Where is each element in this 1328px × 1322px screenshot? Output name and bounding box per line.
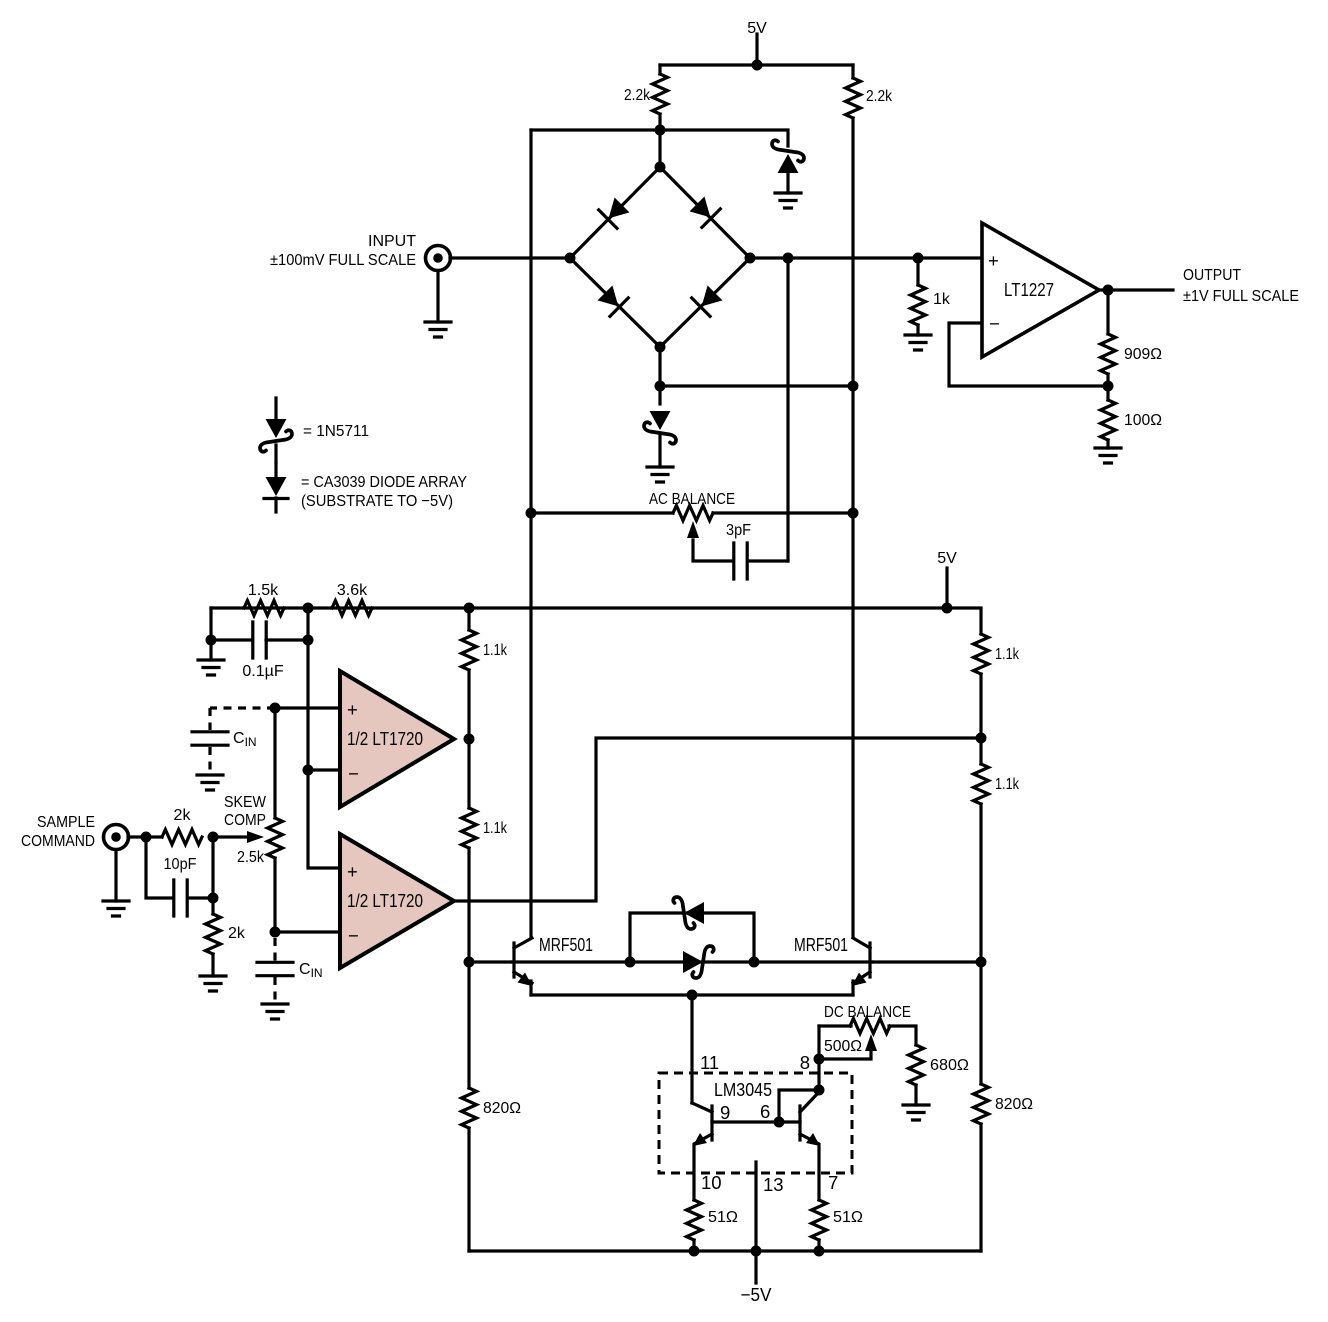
node base junction xyxy=(774,1117,785,1128)
svg-text:OUTPUT: OUTPUT xyxy=(1183,267,1241,284)
wire terminal to 2k xyxy=(128,835,162,838)
node SAMPLE COMMAND terminal xyxy=(21,814,129,901)
svg-text:1.1k: 1.1k xyxy=(995,646,1020,663)
svg-text:2k: 2k xyxy=(228,925,246,942)
resistor 1.1k upper-right xyxy=(974,634,1020,674)
resistor 2.2k left xyxy=(624,65,668,130)
wire dashed CIN1 to ground xyxy=(208,747,211,774)
svg-text:1.1k: 1.1k xyxy=(483,820,508,837)
svg-text:LM3045: LM3045 xyxy=(714,1079,772,1100)
svg-text:3pF: 3pF xyxy=(726,522,751,539)
node pin 8 junction xyxy=(814,1054,825,1065)
node comp1 inverting junction xyxy=(303,765,314,776)
svg-text:500Ω: 500Ω xyxy=(824,1038,862,1055)
wire pin 11 drop xyxy=(690,995,693,1103)
resistor 820 ohm right xyxy=(974,1084,1034,1124)
node skew comp wiper junction xyxy=(208,832,219,843)
wire op-amp output xyxy=(1099,288,1173,291)
svg-text:1k: 1k xyxy=(933,291,951,308)
svg-text:= CA3039 DIODE ARRAY: = CA3039 DIODE ARRAY xyxy=(301,474,467,491)
resistor 680 ohm xyxy=(909,1045,970,1105)
svg-text:10: 10 xyxy=(701,1172,722,1193)
ground 2k shunt xyxy=(200,976,226,991)
legend diode 1N5711 symbol xyxy=(260,398,369,462)
ground input terminal xyxy=(425,322,451,337)
svg-text:(SUBSTRATE TO −5V): (SUBSTRATE TO −5V) xyxy=(301,493,453,510)
node bridge top vertex xyxy=(655,162,666,173)
wire bottom -5V rail xyxy=(469,1249,981,1252)
svg-text:10pF: 10pF xyxy=(164,856,197,873)
ground CIN1 xyxy=(197,775,223,790)
node op-amp output xyxy=(1103,285,1114,296)
diode D1 1N5711 clamp top (cathode up) xyxy=(772,140,804,193)
node 0.1uF right junction xyxy=(303,635,314,646)
svg-text:3.6k: 3.6k xyxy=(337,582,368,599)
wire center base link xyxy=(512,960,872,963)
node right line junction y386 xyxy=(848,381,859,392)
diode bridge lower-right (CA3039, right to bottom) xyxy=(692,284,725,317)
node diode pair left junction xyxy=(625,957,636,968)
wire bridge bottom stem xyxy=(658,347,661,404)
node 51 ohm right junction xyxy=(814,1246,825,1257)
diode bridge upper-left (CA3039, top to left) xyxy=(599,196,632,229)
wire diode connection pin6 to collector xyxy=(779,1090,819,1122)
svg-text:MRF501: MRF501 xyxy=(794,934,848,955)
resistor 1k xyxy=(911,253,951,336)
wire base link xyxy=(712,1120,800,1123)
capacitor CIN1 xyxy=(192,730,257,749)
wire junction to bridge top xyxy=(658,130,661,167)
resistor 820 ohm left xyxy=(462,1088,522,1128)
resistor 909 ohm xyxy=(1101,290,1163,386)
svg-text:+: + xyxy=(347,699,358,720)
wire dashed CIN2 to ground xyxy=(273,977,276,1003)
wire rail left drop xyxy=(209,608,212,640)
potentiometer DC BALANCE 500 ohm xyxy=(819,1004,916,1059)
wire comp1 inverting input xyxy=(308,768,340,771)
svg-text:0.1µF: 0.1µF xyxy=(242,663,283,680)
svg-text:+: + xyxy=(988,250,999,271)
wire right base xyxy=(872,960,981,963)
diode bridge upper-right (CA3039, top to right) xyxy=(688,195,721,228)
wire skew comp vertical xyxy=(273,708,276,932)
wire emitter bus xyxy=(531,993,853,996)
wire diode on base link xyxy=(630,960,754,963)
svg-text:−: − xyxy=(348,763,359,784)
svg-text:MRF501: MRF501 xyxy=(539,934,593,955)
svg-text:680Ω: 680Ω xyxy=(930,1057,969,1074)
resistor 1.1k lower-left xyxy=(462,808,508,848)
svg-text:9: 9 xyxy=(720,1102,730,1123)
wire left vertical line to MRF501 collector xyxy=(529,130,532,937)
wire input terminal ground stem xyxy=(436,271,439,322)
wire dashed to CIN2 xyxy=(273,938,276,961)
wire input to bridge left vertex xyxy=(450,256,570,259)
wire bridge bottom to right line xyxy=(660,384,853,387)
node 3pF tap on output line xyxy=(783,253,794,264)
legend diode CA3039 symbol xyxy=(264,464,467,512)
node -5V junction xyxy=(751,1246,762,1257)
svg-text:2.5k: 2.5k xyxy=(237,849,265,866)
svg-text:2k: 2k xyxy=(174,807,192,824)
wiper DC balance xyxy=(819,1051,871,1059)
diode D2 1N5711 clamp below bridge (cathode down) xyxy=(644,411,676,467)
node 0.1uF left junction xyxy=(206,635,217,646)
node bridge top feed junction xyxy=(531,125,788,168)
svg-text:2.2k: 2.2k xyxy=(866,88,893,105)
node 10pF left junction xyxy=(141,832,152,843)
svg-text:51Ω: 51Ω xyxy=(708,1209,738,1226)
op-amp U2b 1/2 LT1720 xyxy=(340,834,454,968)
svg-text:1.1k: 1.1k xyxy=(995,776,1020,793)
node AC balance right junction xyxy=(848,508,859,519)
svg-text:±100mV FULL SCALE: ±100mV FULL SCALE xyxy=(270,252,416,269)
wire 3pF branch vertical xyxy=(786,258,789,561)
svg-text:−: − xyxy=(989,313,1000,334)
transistor Q1 MRF501 (PNP left) xyxy=(514,934,593,995)
node comp2 output junction right xyxy=(976,733,987,744)
resistor 1.5k xyxy=(244,582,284,616)
resistor 1.1k lower-right xyxy=(974,764,1020,804)
node OUTPUT label xyxy=(1183,267,1299,305)
transistor Q2 MRF501 (PNP right) xyxy=(794,934,870,995)
svg-text:1.5k: 1.5k xyxy=(248,582,279,599)
wire pin 13 substrate xyxy=(754,1162,757,1283)
svg-text:909Ω: 909Ω xyxy=(1124,346,1162,363)
wire op-amp inverting feedback xyxy=(949,323,1108,386)
node diode pair right junction xyxy=(749,957,760,968)
wire junction right to clamp diode xyxy=(660,130,788,146)
node bridge right vertex xyxy=(745,253,756,264)
wire junction left to hold line xyxy=(531,128,660,131)
wire comp1 noninverting input xyxy=(275,706,340,709)
wire bridge arm top-right xyxy=(660,167,750,258)
wire bridge output to op-amp xyxy=(750,256,981,259)
node 5V mid junction xyxy=(942,603,953,614)
op-amp U1 LT1227 xyxy=(982,223,1099,357)
node INPUT terminal xyxy=(270,233,451,322)
resistor 3.6k xyxy=(332,582,372,616)
wire comparator feedback vertical xyxy=(308,608,340,868)
svg-text:INPUT: INPUT xyxy=(368,233,416,250)
svg-text:6: 6 xyxy=(760,1101,770,1122)
node 51 ohm left junction xyxy=(689,1246,700,1257)
node bridge bottom junction xyxy=(655,381,666,392)
svg-text:51Ω: 51Ω xyxy=(833,1209,863,1226)
resistor 2k series xyxy=(162,807,202,845)
svg-text:1.1k: 1.1k xyxy=(483,642,508,659)
ground 1k xyxy=(905,335,931,350)
wire bridge arm top-left xyxy=(570,167,660,258)
diode bridge lower-left (CA3039, left to bottom) xyxy=(596,284,629,317)
svg-text:2.2k: 2.2k xyxy=(624,87,651,104)
resistor 1.1k upper-left xyxy=(462,630,508,670)
wire bridge arm bottom-right xyxy=(660,258,750,347)
svg-text:AC BALANCE: AC BALANCE xyxy=(649,491,735,508)
resistor 2k shunt xyxy=(206,914,246,976)
ground sample terminal xyxy=(103,901,129,916)
svg-text:5V: 5V xyxy=(937,550,957,567)
wire pin 8 net xyxy=(817,1026,820,1090)
node 5V mid supply xyxy=(937,550,957,608)
svg-text:11: 11 xyxy=(700,1052,719,1073)
svg-text:1/2 LT1720: 1/2 LT1720 xyxy=(347,890,423,911)
resistor 2.2k right xyxy=(846,65,893,937)
node emitter bus center xyxy=(687,990,698,1001)
svg-text:−5V: −5V xyxy=(741,1284,773,1305)
ground 680 ohm xyxy=(903,1105,929,1120)
svg-text:−: − xyxy=(348,925,359,946)
wire comp2 inverting input xyxy=(275,930,340,933)
node left base junction xyxy=(464,957,475,968)
node collector junction xyxy=(814,1085,825,1096)
node AC balance left junction xyxy=(526,508,537,519)
resistor 51 ohm right xyxy=(812,1200,864,1251)
ground 0.1uF xyxy=(198,640,224,675)
svg-text:COMP: COMP xyxy=(224,812,266,829)
node bridge bottom vertex xyxy=(655,342,666,353)
node right base junction xyxy=(976,957,987,968)
resistor 51 ohm left xyxy=(687,1200,739,1251)
junction top rail / 5V xyxy=(752,60,763,71)
node comp2 - junction xyxy=(270,927,281,938)
svg-text:LT1227: LT1227 xyxy=(1004,279,1054,300)
potentiometer AC BALANCE xyxy=(531,491,853,561)
node comp1 + junction xyxy=(270,703,281,714)
node feedback junction xyxy=(1103,381,1114,392)
node rail/3.6k junction xyxy=(303,603,314,614)
wire top rail xyxy=(660,63,853,66)
capacitor 0.1uF xyxy=(211,622,308,680)
ground CIN2 xyxy=(262,1004,288,1019)
svg-text:SAMPLE: SAMPLE xyxy=(37,814,95,831)
svg-text:+: + xyxy=(347,861,358,882)
svg-text:820Ω: 820Ω xyxy=(995,1096,1033,1113)
wire 1.1k chain vertical left xyxy=(467,608,470,1251)
node 10pF right junction xyxy=(208,893,219,904)
node rail/1.1k junction xyxy=(464,603,475,614)
wire comp2 output routing xyxy=(454,738,981,901)
svg-text:820Ω: 820Ω xyxy=(483,1100,521,1117)
capacitor CIN2 xyxy=(257,961,323,980)
wire bridge arm bottom-left xyxy=(570,258,660,347)
wire 10pF branch xyxy=(146,837,213,914)
svg-text:= 1N5711: = 1N5711 xyxy=(303,423,369,440)
wire dashed to CIN1 xyxy=(210,708,275,730)
diode D4 1N5711 (lower, pointing right) xyxy=(683,946,714,978)
svg-text:7: 7 xyxy=(828,1172,838,1193)
transistor Q3 LM3045 left (NPN) xyxy=(692,1103,712,1200)
node bridge left vertex xyxy=(565,253,576,264)
resistor 100 ohm xyxy=(1101,386,1163,448)
wire 5V stem xyxy=(755,34,758,65)
wiper AC balance xyxy=(693,540,732,561)
svg-text:8: 8 xyxy=(800,1052,810,1073)
node 5V top supply xyxy=(660,20,853,71)
capacitor 3pF xyxy=(726,522,788,579)
ground clamp top xyxy=(775,193,801,208)
LM3045 dashed box xyxy=(659,1073,852,1173)
wiper skew comp arrow xyxy=(213,835,248,838)
svg-text:SKEW: SKEW xyxy=(224,794,267,811)
diode D3 1N5711 (upper, pointing left) xyxy=(673,897,704,929)
svg-text:±1V FULL SCALE: ±1V FULL SCALE xyxy=(1183,288,1299,305)
wire left base xyxy=(469,960,512,963)
svg-text:1/2 LT1720: 1/2 LT1720 xyxy=(347,728,423,749)
ground clamp below bridge xyxy=(647,467,673,482)
wire diode loop xyxy=(630,913,754,962)
ground 100 ohm xyxy=(1095,448,1121,463)
node comp1 output xyxy=(464,734,475,745)
wire 1.1k chain vertical right xyxy=(979,674,982,1251)
op-amp U2a 1/2 LT1720 xyxy=(340,671,454,807)
svg-text:13: 13 xyxy=(763,1174,784,1195)
potentiometer SKEW COMP 2.5k xyxy=(213,794,283,866)
capacitor 10pF xyxy=(164,856,197,916)
transistor Q4 LM3045 right (NPN) xyxy=(800,1092,820,1200)
svg-text:COMMAND: COMMAND xyxy=(21,833,95,850)
svg-text:100Ω: 100Ω xyxy=(1124,412,1162,429)
wire mid rail xyxy=(211,608,981,634)
